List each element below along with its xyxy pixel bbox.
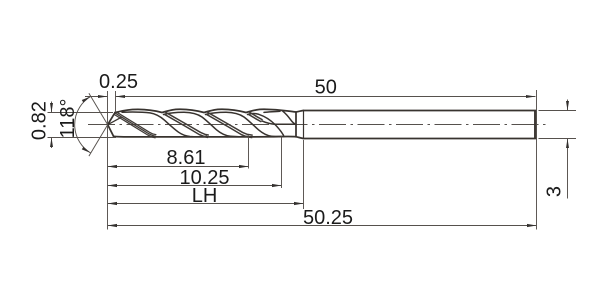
margin band 1 (from point vertex) bbox=[116, 112, 156, 135]
flute runout curve upper bbox=[283, 111, 296, 124]
svg-text:3: 3 bbox=[544, 186, 566, 197]
extension line shank top right (3) bbox=[539, 110, 577, 112]
dimension line 50 bbox=[116, 96, 536, 98]
extension line x=303.7 (LH) bbox=[303, 140, 305, 209]
flute top silhouette edge bbox=[115, 109, 296, 112]
svg-text:0.82: 0.82 bbox=[29, 101, 51, 140]
flute runout horizontal edge bbox=[282, 123, 296, 125]
flute bottom silhouette edge bbox=[114, 135, 296, 138]
shank start vertical edge bbox=[303, 111, 305, 139]
dimension line 8.61 bbox=[108, 166, 249, 168]
svg-text:50.25: 50.25 bbox=[303, 207, 353, 229]
svg-text:0.25: 0.25 bbox=[99, 71, 138, 93]
svg-text:LH: LH bbox=[192, 185, 218, 207]
svg-text:8.61: 8.61 bbox=[167, 147, 206, 169]
extension line shank bottom right (3) bbox=[539, 138, 577, 140]
dimension 0.82 arrows bbox=[51, 102, 53, 149]
shank end face outer line bbox=[535, 111, 537, 137]
shank bottom edge bbox=[304, 138, 537, 140]
centerline (drill axis) bbox=[88, 124, 546, 126]
drill point upper flank edge bbox=[108, 113, 115, 125]
dimension line 50.25 bbox=[108, 225, 537, 227]
extension line x=281.7 (10.25) bbox=[281, 136, 283, 188]
dimension line 10.25 bbox=[108, 185, 282, 187]
extension line drill bottom edge (0.82) bbox=[48, 137, 117, 139]
shank top edge bbox=[304, 110, 537, 112]
dimension 0.25 left outside arrow bbox=[85, 96, 108, 98]
extension line drill top edge (0.82) bbox=[48, 112, 114, 114]
dimension line LH bbox=[108, 203, 304, 205]
angle arc arrowheads bbox=[82, 96, 91, 153]
svg-text:118°: 118° bbox=[57, 98, 79, 138]
flute helix edge curve 3 bbox=[206, 112, 285, 136]
dimension 3 arrows bbox=[567, 100, 569, 199]
shank end face inner line bbox=[534, 111, 536, 138]
extension line x=248.4 (8.61) bbox=[248, 137, 250, 169]
flute end lens inner line bbox=[264, 111, 280, 112]
extension line at tip bbox=[107, 91, 109, 230]
angle dimension arc bbox=[75, 96, 91, 153]
flute helix edge curve 2 bbox=[164, 112, 249, 137]
extension line x=115.4 (0.25) bbox=[115, 91, 117, 112]
flute end face vertical line bbox=[295, 112, 297, 137]
margin band 4 tail into runout bbox=[262, 121, 282, 124]
angle dimension line upper bbox=[89, 93, 108, 124]
neck chamfer bottom bbox=[296, 137, 304, 139]
flute helix edge curve 1 bbox=[122, 112, 207, 137]
flute helix edge curve 4 (to runout bottom) bbox=[248, 113, 284, 135]
margin band 2 bbox=[165, 112, 208, 135]
svg-text:50: 50 bbox=[315, 76, 337, 98]
chisel edge line bbox=[108, 117, 122, 125]
angle dimension line lower bbox=[89, 125, 108, 156]
neck chamfer top bbox=[296, 111, 304, 113]
drill point lower flank edge bbox=[108, 125, 114, 137]
margin band 4 (flattens into runout) bbox=[249, 112, 262, 120]
margin band 3 bbox=[207, 112, 252, 135]
extension line at shank end bbox=[536, 90, 538, 230]
